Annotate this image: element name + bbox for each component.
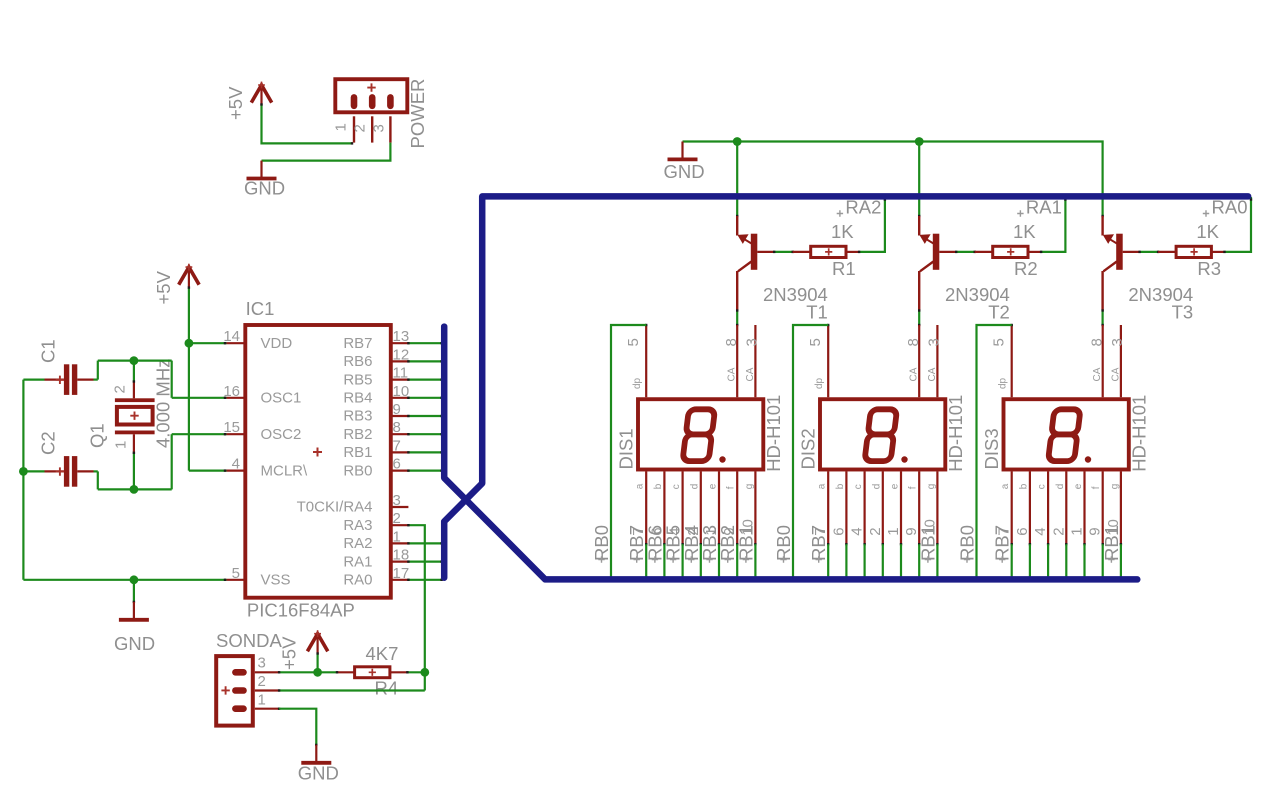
transistor T3 2N3904 — [1101, 215, 1139, 311]
resistor R1 1K — [793, 246, 859, 257]
value HD-H101 (DIS2) — [945, 395, 966, 472]
svg-text:RA3: RA3 — [343, 517, 372, 534]
IC U1 box (PIC16F84AP) — [245, 325, 390, 598]
pin 4 MCLR\ (IC1) — [227, 456, 309, 480]
wire segment d to bus (DIS1) — [700, 544, 702, 578]
svg-text:2: 2 — [352, 124, 369, 132]
wire RB6 to bus — [407, 360, 443, 362]
svg-text:POWER: POWER — [407, 79, 428, 149]
label POWER — [407, 79, 428, 149]
connector SONDA — [216, 656, 280, 726]
svg-text:a: a — [817, 483, 828, 489]
wire segment f to bus (DIS1) — [736, 544, 738, 578]
power supply symbol +5V (P1) — [251, 82, 271, 105]
pin number 4 (DIS3) — [1032, 527, 1049, 535]
svg-text:15: 15 — [223, 419, 240, 436]
svg-text:RB7: RB7 — [343, 335, 372, 352]
svg-text:RB2: RB2 — [343, 426, 372, 443]
pin 3 CA (DIS3) — [1120, 325, 1122, 397]
pin name CA 3 (DIS3) — [1110, 367, 1121, 381]
svg-text:HD-H101: HD-H101 — [1128, 395, 1149, 472]
wire RB4 to bus — [407, 397, 443, 399]
display DIS3 HD-H101 box — [1004, 399, 1129, 469]
wire segment a to bus (DIS2) — [827, 544, 829, 578]
pin number 5 (DIS2) — [807, 338, 824, 346]
svg-text:CA: CA — [909, 367, 920, 381]
net label RA2 — [837, 197, 882, 218]
pin number 7 (DIS1) — [630, 527, 647, 535]
svg-text:11: 11 — [393, 365, 409, 382]
svg-text:8: 8 — [723, 338, 740, 346]
svg-text:CA: CA — [927, 367, 938, 381]
wire segment a to bus (DIS3) — [1011, 544, 1013, 578]
resistor R2 1K — [975, 246, 1041, 257]
pin 2 label (SONDA) — [258, 673, 266, 690]
pin number 9 (DIS1) — [721, 527, 738, 535]
svg-text:OSC2: OSC2 — [261, 426, 302, 443]
label 2N3904 (T2) — [945, 284, 1010, 305]
transistor T2 2N3904 — [918, 215, 956, 311]
pin 3 label (SONDA) — [258, 655, 266, 672]
svg-text:C2: C2 — [38, 431, 59, 455]
svg-text:RB1: RB1 — [917, 525, 938, 561]
svg-text:R2: R2 — [1014, 258, 1038, 279]
digit 8 (DIS3) — [1048, 409, 1091, 462]
svg-text:1: 1 — [885, 527, 902, 535]
svg-text:HD-H101: HD-H101 — [763, 395, 784, 472]
svg-text:5: 5 — [807, 338, 824, 346]
wire crystal bottom rail to OSC2 — [98, 433, 227, 489]
svg-text:DIS1: DIS1 — [616, 428, 637, 469]
svg-text:e: e — [1073, 483, 1084, 489]
pin number 6 (DIS2) — [830, 527, 847, 535]
wire RB2 to bus — [407, 433, 443, 435]
junction R4/RA3 — [420, 668, 429, 677]
wire segment e to bus (DIS1) — [718, 544, 720, 578]
svg-text:c: c — [671, 484, 682, 489]
svg-text:17: 17 — [393, 565, 410, 582]
wire rail to T1 — [736, 142, 738, 217]
svg-text:g: g — [1109, 484, 1120, 490]
svg-text:T0CKI/RA4: T0CKI/RA4 — [297, 499, 373, 516]
svg-text:a: a — [635, 483, 646, 489]
svg-text:RB7: RB7 — [992, 525, 1013, 561]
pin number 10 (DIS3) — [1105, 519, 1122, 536]
pin number 6 (DIS3) — [1014, 527, 1031, 535]
pin name CA 3 (DIS1) — [745, 367, 756, 381]
ground GND (top left) — [247, 161, 277, 179]
display DIS2 HD-H101 box — [820, 399, 945, 469]
svg-text:CA: CA — [745, 367, 756, 381]
label IC1 — [246, 298, 275, 319]
svg-text:c: c — [853, 484, 864, 489]
junction +5V/R4 — [313, 668, 322, 677]
wire segment b to bus (DIS1) — [663, 544, 665, 578]
pin 12 RB6 (IC1) — [343, 346, 409, 370]
label R4 — [375, 678, 399, 699]
svg-text:dp: dp — [632, 377, 643, 389]
pin number 10 (DIS2) — [921, 519, 938, 536]
svg-text:2: 2 — [393, 510, 401, 527]
net label RB0 (DIS1) — [591, 525, 612, 563]
pin 1 RA2 (IC1) — [343, 528, 408, 552]
svg-text:RB5: RB5 — [343, 371, 372, 388]
svg-text:9: 9 — [393, 401, 401, 418]
pin 9 RB3 (IC1) — [343, 401, 408, 425]
svg-text:4K7: 4K7 — [366, 643, 399, 664]
wire T1 emitter to display — [736, 309, 738, 326]
label GND (SONDA) — [298, 763, 339, 784]
pin 7 segment a (DIS1) — [635, 472, 648, 546]
svg-text:1: 1 — [258, 692, 266, 709]
pin number 8 (DIS3) — [1089, 338, 1106, 346]
svg-text:RB6: RB6 — [343, 353, 372, 370]
pin number 9 (DIS2) — [903, 527, 920, 535]
pin name CA 3 (DIS2) — [927, 367, 938, 381]
ground GND (rail) — [668, 142, 698, 160]
wire R2 to bus (RA1) — [1040, 197, 1067, 253]
label 2N3904 (T1) — [763, 284, 828, 305]
pin name dp (DIS1) — [632, 377, 643, 389]
svg-text:2: 2 — [1050, 527, 1067, 535]
label C2 — [38, 431, 59, 455]
pin 16 OSC1 (IC1) — [223, 383, 301, 407]
svg-text:PIC16F84AP: PIC16F84AP — [247, 600, 355, 621]
svg-text:DIS2: DIS2 — [798, 428, 819, 469]
svg-text:8: 8 — [1089, 338, 1106, 346]
svg-text:d: d — [871, 484, 882, 490]
wire segment c to bus (DIS2) — [863, 544, 865, 578]
pin number 2 (DIS3) — [1050, 527, 1067, 535]
pin 5 dp (DIS3) — [1011, 324, 1013, 398]
junction crystal bottom — [130, 485, 139, 494]
wire T1 base to R1 — [773, 251, 794, 253]
pin 9 segment f (DIS2) — [908, 472, 921, 546]
svg-text:f: f — [1091, 486, 1102, 489]
pin 1 label (SONDA) — [258, 692, 266, 709]
svg-text:5: 5 — [232, 565, 240, 582]
svg-text:3: 3 — [1109, 338, 1126, 346]
svg-text:a: a — [1000, 483, 1011, 489]
svg-text:13: 13 — [393, 328, 410, 345]
svg-text:+5V: +5V — [153, 270, 174, 304]
pin 6 segment b (DIS2) — [835, 472, 848, 546]
wire dp net (DIS3) — [977, 325, 1012, 578]
svg-text:10: 10 — [393, 383, 410, 400]
svg-text:CA: CA — [1092, 367, 1103, 381]
pin 10 RB4 (IC1) — [343, 383, 409, 407]
pin 3 T0CKI/RA4 (IC1) — [297, 492, 409, 516]
svg-text:c: c — [1037, 484, 1048, 489]
net label RB7 (DIS2) — [808, 525, 829, 563]
pin number 8 (DIS1) — [723, 338, 740, 346]
pin 2 segment d (DIS1) — [689, 472, 702, 546]
pin number 7 (DIS2) — [812, 527, 829, 535]
svg-text:VSS: VSS — [261, 572, 291, 589]
wire segment d to bus (DIS2) — [882, 544, 884, 578]
svg-text:3: 3 — [371, 124, 388, 132]
svg-text:d: d — [1055, 484, 1066, 490]
pin 6 segment b (DIS1) — [653, 472, 666, 546]
pin name dp (DIS3) — [998, 377, 1009, 389]
svg-text:RB3: RB3 — [343, 408, 372, 425]
svg-text:GND: GND — [663, 161, 704, 182]
svg-text:RA0: RA0 — [343, 572, 372, 589]
svg-text:4: 4 — [232, 456, 240, 473]
value 1K (R3) — [1196, 221, 1219, 242]
svg-text:2: 2 — [112, 385, 129, 393]
wire dp net (DIS2) — [793, 325, 828, 578]
wire segment e to bus (DIS3) — [1083, 544, 1085, 578]
pin 1 label (Q1) — [113, 441, 130, 449]
junction VSS/GND — [130, 575, 139, 584]
pin 4 segment c (DIS2) — [853, 472, 866, 546]
pin 4 segment c (DIS1) — [671, 472, 684, 546]
pin 1 segment e (DIS3) — [1073, 472, 1086, 546]
svg-text:1K: 1K — [831, 221, 854, 242]
svg-text:4.000 MHz: 4.000 MHz — [153, 359, 174, 448]
svg-text:Q1: Q1 — [87, 423, 108, 448]
pin name dp (DIS2) — [814, 377, 825, 389]
wire left vertical C1/C2 to VSS — [22, 380, 24, 580]
svg-text:R3: R3 — [1197, 258, 1221, 279]
wire rail to T2 — [918, 142, 920, 217]
wire T3 emitter to display — [1101, 309, 1103, 326]
svg-text:R1: R1 — [832, 258, 856, 279]
wire RA0 to bus — [407, 579, 443, 581]
pin number 3 (DIS3) — [1109, 338, 1126, 346]
label DIS3 — [981, 428, 1002, 469]
label +5V (SONDA) — [279, 636, 300, 670]
bus B1 (RB segments) — [444, 327, 1137, 580]
bus B2 (RA lines) — [444, 196, 1248, 577]
wire segment f to bus (DIS2) — [918, 544, 920, 578]
pin name CA 8 (DIS2) — [909, 367, 920, 381]
svg-text:d: d — [689, 484, 700, 490]
net label RB1 (DIS2) — [917, 525, 938, 563]
label GND (top left) — [244, 178, 285, 199]
label 2N3904 (T3) — [1128, 284, 1193, 305]
wire segment g to bus (DIS2) — [936, 544, 938, 578]
svg-text:3: 3 — [743, 338, 760, 346]
connector POWER — [335, 79, 407, 142]
net label RB0 (DIS3) — [957, 525, 978, 563]
net label RB5 (DIS1) — [663, 525, 684, 563]
svg-text:1K: 1K — [1196, 221, 1219, 242]
wire RA3 to SONDA/R4 — [407, 524, 425, 691]
wire segment g to bus (DIS3) — [1120, 544, 1122, 578]
label R3 — [1197, 258, 1221, 279]
pin 4 segment c (DIS3) — [1037, 472, 1050, 546]
svg-text:4: 4 — [849, 527, 866, 535]
ground GND (VSS) — [119, 580, 149, 620]
wire VSS row — [23, 579, 226, 581]
pin 6 segment b (DIS3) — [1018, 472, 1031, 546]
pin name CA 8 (DIS3) — [1092, 367, 1103, 381]
label DIS2 — [798, 428, 819, 469]
svg-text:RB1: RB1 — [735, 525, 756, 561]
svg-text:dp: dp — [814, 377, 825, 389]
pin 10 segment g (DIS1) — [744, 472, 757, 546]
net label RB2 (DIS1) — [717, 525, 738, 563]
wire SONDA pin 1 to GND — [279, 709, 317, 746]
power supply symbol +5V (SONDA) — [307, 630, 327, 653]
wire top rail (transistor emitters) — [683, 142, 1103, 217]
crystal Q1 — [115, 382, 155, 453]
pin 2 label (Q1) — [112, 385, 129, 393]
svg-text:RB4: RB4 — [343, 390, 372, 407]
pin number 3 (DIS1) — [743, 338, 760, 346]
svg-text:VDD: VDD — [261, 335, 293, 352]
net label RB4 (DIS1) — [681, 525, 702, 563]
pin 7 segment a (DIS3) — [1000, 472, 1013, 546]
svg-text:C1: C1 — [38, 339, 59, 363]
capacitor C2 — [23, 456, 97, 487]
net label RB6 (DIS1) — [644, 525, 665, 563]
value HD-H101 (DIS3) — [1128, 395, 1149, 472]
svg-text:5: 5 — [625, 338, 642, 346]
wire segment c to bus (DIS3) — [1047, 544, 1049, 578]
value 1K (R1) — [831, 221, 854, 242]
label C1 — [38, 339, 59, 363]
pin 7 segment a (DIS2) — [817, 472, 830, 546]
wire T3 base to R3 — [1138, 251, 1159, 253]
pin number 7 (DIS3) — [996, 527, 1013, 535]
svg-text:1: 1 — [1069, 527, 1086, 535]
pin number 1 (DIS1) — [703, 527, 720, 535]
value 4K7 (R4) — [366, 643, 399, 664]
pin 1 segment e (DIS2) — [890, 472, 903, 546]
digit 8 (DIS1) — [682, 409, 725, 462]
svg-text:SONDA: SONDA — [216, 630, 282, 651]
svg-text:4: 4 — [1032, 527, 1049, 535]
pin number 5 (DIS3) — [991, 338, 1008, 346]
pin 17 RA0 (IC1) — [343, 565, 409, 589]
svg-text:GND: GND — [244, 178, 285, 199]
pin 8 CA (DIS3) — [1102, 325, 1104, 397]
net label RA1 — [1017, 197, 1062, 218]
net label RA0 — [1203, 197, 1248, 218]
pin number 4 (DIS1) — [667, 527, 684, 535]
svg-text:e: e — [708, 483, 719, 489]
svg-text:1: 1 — [113, 441, 130, 449]
value PIC16F84AP — [247, 600, 355, 621]
svg-text:T2: T2 — [988, 302, 1010, 323]
value HD-H101 (DIS1) — [763, 395, 784, 472]
pin 2 segment d (DIS2) — [871, 472, 884, 546]
svg-text:RB0: RB0 — [591, 525, 612, 561]
pin 11 RB5 (IC1) — [343, 365, 408, 389]
svg-text:5: 5 — [991, 338, 1008, 346]
svg-text:6: 6 — [830, 527, 847, 535]
resistor R3 1K — [1158, 246, 1224, 257]
junction crystal top — [130, 356, 139, 365]
net label RB1 (DIS3) — [1101, 525, 1122, 563]
wire segment b to bus (DIS3) — [1029, 544, 1031, 578]
svg-text:12: 12 — [393, 346, 410, 363]
svg-text:GND: GND — [298, 763, 339, 784]
pin 5 VSS (IC1) — [227, 565, 291, 589]
pin number 9 (DIS3) — [1087, 527, 1104, 535]
pin 2 RA3 (IC1) — [343, 510, 408, 534]
pin number 2 (DIS2) — [867, 527, 884, 535]
pin number 2 (DIS1) — [685, 527, 702, 535]
net label RB7 (DIS1) — [626, 525, 647, 563]
svg-text:MCLR\: MCLR\ — [261, 462, 309, 479]
wire RA2 to bus — [407, 542, 443, 544]
svg-text:b: b — [835, 483, 846, 489]
svg-text:3: 3 — [258, 655, 266, 672]
pin 15 OSC2 (IC1) — [223, 419, 301, 443]
value 4.000 MHz — [153, 359, 174, 448]
svg-text:OSC1: OSC1 — [261, 390, 302, 407]
svg-text:RA2: RA2 — [343, 535, 372, 552]
svg-text:RA1: RA1 — [343, 553, 372, 570]
pin 7 RB1 (IC1) — [343, 437, 408, 461]
label Q1 — [87, 423, 108, 448]
pin 18 RA1 (IC1) — [343, 547, 409, 571]
pin number 3 (DIS2) — [925, 338, 942, 346]
label GND (rail) — [663, 161, 704, 182]
ground GND (SONDA) — [301, 745, 331, 763]
svg-text:g: g — [926, 484, 937, 490]
wire segment e to bus (DIS2) — [900, 544, 902, 578]
svg-text:1: 1 — [393, 528, 401, 545]
pin number 1 (DIS3) — [1069, 527, 1086, 535]
wire dp net (DIS1) — [611, 325, 646, 578]
label T2 — [988, 302, 1010, 323]
wire +5V to POWER pin 1 — [260, 103, 353, 144]
wire R1 to bus (RA2) — [858, 197, 886, 253]
digit 8 (DIS2) — [864, 409, 907, 462]
label GND (VSS) — [114, 633, 155, 654]
svg-text:2: 2 — [867, 527, 884, 535]
pin 5 dp (DIS2) — [827, 324, 829, 398]
svg-text:b: b — [653, 483, 664, 489]
pin 8 CA (DIS1) — [736, 325, 738, 397]
wire RB0 to bus — [407, 469, 443, 471]
label T3 — [1172, 302, 1194, 323]
svg-text:RB0: RB0 — [957, 525, 978, 561]
svg-text:1K: 1K — [1013, 221, 1036, 242]
pin 6 RB0 (IC1) — [343, 456, 408, 480]
pin 9 segment f (DIS1) — [726, 472, 739, 546]
wire segment f to bus (DIS3) — [1102, 544, 1104, 578]
svg-text:dp: dp — [998, 377, 1009, 389]
pin 8 CA (DIS2) — [918, 325, 920, 397]
wire R3 to bus (RA0) — [1223, 197, 1252, 253]
pin number 5 (DIS1) — [625, 338, 642, 346]
svg-text:GND: GND — [114, 633, 155, 654]
label R2 — [1014, 258, 1038, 279]
net label RB3 (DIS1) — [699, 525, 720, 563]
svg-text:2: 2 — [258, 673, 266, 690]
pin 3 CA (DIS2) — [936, 325, 938, 397]
svg-text:RB1: RB1 — [343, 444, 372, 461]
wire T2 base to R2 — [955, 251, 976, 253]
pin 2 segment d (DIS3) — [1055, 472, 1068, 546]
wire segment d to bus (DIS3) — [1065, 544, 1067, 578]
pin 3 label (POWER) — [371, 124, 388, 132]
svg-text:RB0: RB0 — [773, 525, 794, 561]
wire RB1 to bus — [407, 451, 443, 453]
wire +5V to R4/SONDA pin3 — [279, 652, 337, 672]
pin 1 label (POWER) — [333, 123, 350, 131]
wire segment b to bus (DIS2) — [845, 544, 847, 578]
svg-text:18: 18 — [393, 547, 410, 564]
label +5V (IC) — [153, 270, 174, 304]
label +5V (P1) — [225, 86, 246, 120]
